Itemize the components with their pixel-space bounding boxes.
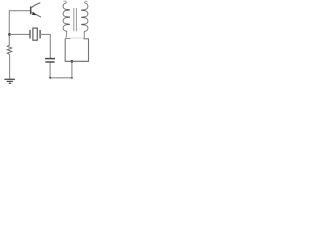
wire resistor to ground (9, 55, 11, 80)
transformer T1 left winding top hook (63, 1, 66, 3)
box U1 left edge (64, 39, 66, 62)
node junction box bottom (71, 60, 74, 63)
wire down to capacitor (49, 34, 51, 58)
ground bar 1 (4, 78, 15, 80)
wire left rail vertical (8, 10, 10, 45)
box U1 bottom edge (65, 60, 89, 62)
wire base horizontal (9, 10, 30, 12)
transistor Q1 collector (31, 3, 41, 9)
crystal Y1 body (33, 28, 37, 40)
node corner bottom/drop (71, 77, 73, 79)
ground bar 2 (7, 80, 13, 82)
transformer T1 left winding knot dashes (67, 10, 70, 24)
wire crystal to corner (40, 33, 50, 35)
wire capacitor bottom lead (49, 63, 51, 78)
transformer T1 right winding knot dashes (81, 10, 84, 24)
transformer T1 right winding (82, 3, 88, 32)
node corner cap/bottom (49, 77, 51, 79)
transistor Q1 emitter arrow (32, 12, 36, 15)
wire mid horizontal (10, 33, 30, 35)
crystal Y1 right plate (39, 30, 41, 39)
capacitor C1 bottom plate (45, 61, 54, 63)
box U1 top edge left part (65, 38, 71, 40)
transformer T1 left winding (63, 3, 69, 32)
transformer T1 right winding top hook (85, 1, 88, 3)
capacitor C1 top plate (45, 58, 55, 60)
transformer T1 core line right (75, 8, 77, 31)
box U1 right edge (88, 39, 90, 62)
resistor R1 (7, 45, 11, 55)
wire transformer right lead (83, 32, 85, 39)
box U1 top edge middle faint part (71, 37, 84, 39)
wire drop from box (71, 61, 73, 78)
transistor Q1 emitter (31, 12, 41, 17)
transformer T1 core line left (73, 8, 75, 31)
wire transformer left lead (65, 32, 68, 39)
transistor Q1 base bar (30, 6, 32, 14)
ground bar 3 (9, 82, 11, 84)
wire bottom horizontal (50, 77, 72, 79)
crystal Y1 left plate (29, 30, 31, 39)
node junction base/crystal rail (8, 33, 11, 36)
box U1 top edge right part (84, 38, 89, 40)
